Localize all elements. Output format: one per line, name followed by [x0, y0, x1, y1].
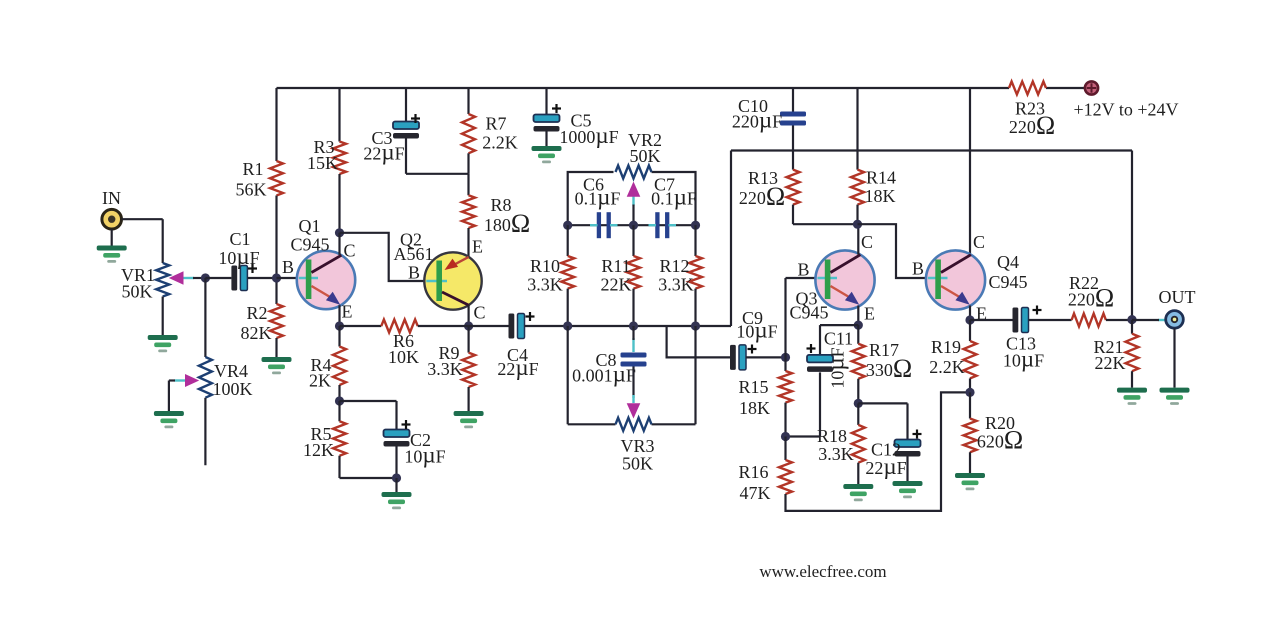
- wire R5 to bottom: [340, 456, 397, 478]
- svg-text:IN: IN: [102, 188, 121, 208]
- svg-text:22µF: 22µF: [497, 355, 538, 380]
- wire node to R20: [969, 392, 971, 418]
- node Q3 emitter: [854, 321, 863, 330]
- wire VR1 wiper to node: [193, 277, 205, 279]
- wire Q2 collector to C4: [469, 325, 509, 327]
- value 18K R14: [865, 186, 896, 206]
- plus C13: [1033, 306, 1042, 315]
- label R9: [438, 343, 459, 363]
- node R1 R2 base: [272, 273, 281, 282]
- node R19 R20: [965, 388, 974, 397]
- value 3.3K R12: [658, 275, 694, 295]
- capacitor C11: [807, 355, 833, 372]
- wire C9 to node: [746, 356, 786, 358]
- label R1: [242, 159, 263, 179]
- svg-text:R14: R14: [866, 168, 896, 188]
- label C9: [742, 308, 763, 328]
- wire IN to VR1: [122, 219, 163, 263]
- wire R12 to bottom row: [694, 289, 696, 326]
- capacitor C2: [384, 430, 410, 447]
- wire VR4 bottom stub: [204, 398, 206, 466]
- svg-text:10µF: 10µF: [218, 244, 259, 269]
- wire R14 to node: [856, 205, 858, 225]
- wire node up to Q3 base: [786, 278, 817, 357]
- svg-text:3.3K: 3.3K: [427, 359, 463, 379]
- wire VR3 left lead: [568, 423, 616, 425]
- svg-text:C: C: [973, 232, 985, 252]
- label R18: [817, 426, 847, 446]
- svg-text:R10: R10: [530, 256, 560, 276]
- wire VR3 right lead: [652, 423, 696, 425]
- wire Q1 emitter to R6: [340, 325, 382, 327]
- potentiometer VR1: [156, 263, 169, 297]
- wire Q2 collector: [468, 305, 470, 326]
- label C945 Q4: [988, 272, 1027, 292]
- label VR1: [121, 265, 155, 285]
- capacitor C12: [895, 440, 921, 457]
- transistor Q4: [926, 250, 985, 309]
- value 10uF C11 vertical: [824, 347, 849, 388]
- label C8: [595, 350, 616, 370]
- node tone bottom right: [691, 321, 700, 330]
- resistor R21: [1126, 334, 1139, 372]
- value 50K VR1: [122, 282, 153, 302]
- capacitor C13: [1013, 308, 1029, 333]
- wire VR2 right lead: [652, 172, 696, 225]
- svg-text:0.1µF: 0.1µF: [651, 185, 697, 210]
- wiper VR3: [627, 403, 641, 418]
- potentiometer VR4: [199, 357, 212, 398]
- value 220uF C10: [732, 108, 782, 133]
- wire R17 to node: [857, 379, 859, 404]
- svg-text:50K: 50K: [622, 454, 653, 474]
- wire Q1 emitter: [338, 305, 340, 326]
- label C12: [871, 440, 901, 460]
- wire VR1 to ground: [162, 297, 164, 336]
- value 330ohm R17: [866, 354, 912, 383]
- label C Q3: [861, 232, 873, 252]
- wire R1 to base node: [275, 196, 277, 279]
- label Q1: [299, 216, 321, 236]
- svg-text:0.001µF: 0.001µF: [572, 362, 636, 387]
- wire R6 to Q2 collector: [418, 325, 469, 327]
- stub OUT: [1158, 319, 1165, 321]
- svg-text:47K: 47K: [740, 483, 771, 503]
- label C Q2: [473, 303, 485, 323]
- wire right to VR3: [694, 326, 696, 424]
- svg-text:10K: 10K: [388, 347, 419, 367]
- transistor Q1: [297, 251, 355, 309]
- svg-text:18K: 18K: [865, 186, 896, 206]
- resistor R8: [462, 195, 475, 228]
- wire rail to C10: [792, 88, 794, 112]
- wire R15 to node: [784, 403, 786, 437]
- value 3.3K R9: [427, 359, 463, 379]
- wire tone row to C9 jog: [667, 326, 730, 357]
- capacitor C4: [509, 314, 525, 339]
- label R4: [310, 355, 331, 375]
- wire node to R5: [338, 401, 340, 421]
- node tone bottom left: [563, 321, 572, 330]
- connector OUT: [1166, 311, 1184, 329]
- wire feedback from tone node up: [730, 151, 732, 327]
- capacitor C1: [231, 266, 247, 291]
- svg-text:C11: C11: [824, 329, 853, 349]
- label R10: [530, 256, 560, 276]
- wire rail to C3: [405, 88, 407, 122]
- wire VR2 left lead: [568, 172, 614, 225]
- wire node to R11: [632, 225, 634, 256]
- resistor R12: [689, 256, 702, 289]
- wire left to VR3: [567, 326, 569, 424]
- wire VR4 wiper to ground: [169, 381, 175, 412]
- svg-text:B: B: [408, 263, 420, 283]
- label C3: [371, 128, 392, 148]
- wire R11 to bottom row: [632, 289, 634, 326]
- resistor R10: [561, 256, 574, 289]
- svg-text:100K: 100K: [213, 379, 253, 399]
- svg-text:22µF: 22µF: [363, 140, 404, 165]
- svg-text:R8: R8: [490, 195, 511, 215]
- label R7: [485, 114, 506, 134]
- resistor R22: [1072, 314, 1106, 327]
- ground C5: [532, 146, 562, 163]
- transistor Q3: [815, 250, 874, 309]
- label A561 Q2: [394, 244, 434, 264]
- wire node to R16: [784, 437, 786, 461]
- svg-text:0.1µF: 0.1µF: [575, 185, 621, 210]
- resistor R18: [852, 425, 865, 463]
- capacitor C7: [655, 212, 669, 238]
- node Q4 emitter: [965, 315, 974, 324]
- label R13: [748, 168, 778, 188]
- value 15K R3: [307, 153, 338, 173]
- value 0.1uF C7: [651, 185, 697, 210]
- capacitor C3: [393, 122, 419, 139]
- svg-text:E: E: [342, 302, 353, 322]
- value 220&#937; R23: [1009, 111, 1055, 140]
- svg-text:OUT: OUT: [1159, 287, 1196, 307]
- plus C11: [807, 344, 816, 353]
- label VR3: [620, 436, 654, 456]
- wire R4 to node: [338, 385, 340, 401]
- potentiometer VR3: [616, 418, 652, 431]
- stub C8 top: [632, 338, 634, 352]
- wire rail to R7: [467, 88, 469, 114]
- wire Q1 collector to Q2 base jog: [340, 233, 426, 281]
- resistor R5: [333, 421, 346, 455]
- value 3.3K R10: [527, 275, 563, 295]
- label R8: [490, 195, 511, 215]
- wire node to R10: [567, 225, 569, 256]
- wire R9 to ground: [468, 387, 470, 411]
- value 100K VR4: [213, 379, 253, 399]
- label R15: [738, 377, 768, 397]
- ground C2: [382, 492, 412, 509]
- wire Q1 emitter to R4: [338, 326, 340, 347]
- node input: [201, 273, 210, 282]
- wire C13 to R22: [1029, 319, 1072, 321]
- value 10uF C1: [218, 244, 259, 269]
- wire C8 to wiper: [632, 367, 634, 399]
- value 2K R4: [309, 371, 331, 391]
- wiper VR2: [627, 182, 641, 206]
- svg-text:12K: 12K: [303, 440, 334, 460]
- stub C7 left: [649, 224, 657, 226]
- ground VR4 wiper: [154, 411, 184, 428]
- label R3: [313, 137, 334, 157]
- svg-text:www.elecfree.com: www.elecfree.com: [759, 562, 886, 581]
- svg-text:C945: C945: [988, 272, 1027, 292]
- wire node to R12: [694, 225, 696, 256]
- resistor R9: [462, 353, 475, 387]
- svg-text:+12V to +24V: +12V to +24V: [1074, 100, 1179, 120]
- label C4: [507, 345, 528, 365]
- wire R22 to output node: [1106, 319, 1132, 321]
- svg-text:R19: R19: [931, 337, 961, 357]
- svg-text:10µF: 10µF: [404, 443, 445, 468]
- svg-text:50K: 50K: [122, 282, 153, 302]
- label C Q1: [343, 241, 355, 261]
- value 22uF C3: [363, 140, 404, 165]
- label OUT: [1159, 287, 1196, 307]
- resistor R7: [462, 114, 475, 153]
- label R20: [985, 413, 1015, 433]
- value 10uF C2: [404, 443, 445, 468]
- wire node to R15: [784, 357, 786, 371]
- value 56K R1: [236, 180, 267, 200]
- label Q4: [997, 252, 1019, 272]
- plus C12: [913, 430, 922, 439]
- wire base node to Q1: [277, 277, 298, 279]
- label R5: [310, 424, 331, 444]
- label R19: [931, 337, 961, 357]
- wire Q4 emitter: [969, 306, 971, 321]
- node output: [1127, 315, 1136, 324]
- wire R7 to node: [467, 153, 469, 174]
- ground C12: [893, 481, 923, 498]
- ground R2: [262, 357, 292, 374]
- wire rail to R14: [856, 88, 858, 170]
- label R21: [1093, 337, 1123, 357]
- connector IN: [102, 209, 122, 229]
- value 10uF C13: [1003, 347, 1044, 372]
- resistor R2: [270, 304, 283, 338]
- svg-text:B: B: [912, 259, 924, 279]
- svg-text:E: E: [472, 237, 483, 257]
- label C Q4: [973, 232, 985, 252]
- capacitor C6: [597, 212, 611, 238]
- label B Q2: [408, 263, 420, 283]
- node tone bottom mid: [629, 321, 638, 330]
- wire Q3 collector: [857, 224, 859, 254]
- svg-text:15K: 15K: [307, 153, 338, 173]
- ground VR1: [148, 335, 178, 352]
- wire rail to R3: [338, 88, 340, 142]
- capacitor C8: [621, 353, 647, 367]
- svg-text:10µF: 10µF: [1003, 347, 1044, 372]
- svg-text:R2: R2: [246, 303, 267, 323]
- wire node to C8: [632, 326, 634, 340]
- plus C9: [748, 345, 757, 354]
- wire output node to R21: [1131, 320, 1133, 334]
- svg-text:R12: R12: [659, 256, 689, 276]
- svg-text:50K: 50K: [630, 146, 661, 166]
- svg-text:18K: 18K: [739, 398, 770, 418]
- svg-text:R11: R11: [601, 256, 630, 276]
- wire node to R18: [857, 403, 859, 425]
- value 220ohm R13: [739, 182, 785, 211]
- ground OUT: [1160, 388, 1190, 405]
- node C2 ground: [392, 473, 401, 482]
- svg-text:3.3K: 3.3K: [527, 275, 563, 295]
- wire node to C12: [858, 403, 907, 439]
- wire node to R8: [467, 174, 469, 196]
- node R17 R18: [854, 399, 863, 408]
- stub C6 left: [590, 224, 598, 226]
- wire C12 to ground: [906, 457, 908, 482]
- ground R9: [454, 411, 484, 428]
- resistor R3: [333, 142, 346, 175]
- value 22uF C12: [865, 454, 906, 479]
- ground R20: [955, 473, 985, 490]
- svg-text:22K: 22K: [1095, 353, 1126, 373]
- svg-text:VR4: VR4: [214, 361, 248, 381]
- wire base node to R2: [275, 278, 277, 304]
- wire feedback horizontal: [731, 149, 1132, 151]
- svg-text:22µF: 22µF: [865, 454, 906, 479]
- svg-text:B: B: [797, 260, 809, 280]
- potentiometer VR2: [616, 166, 652, 179]
- label C1: [229, 229, 250, 249]
- value 1000uF C5: [559, 123, 618, 148]
- svg-text:3.3K: 3.3K: [818, 444, 854, 464]
- node Q2 collector: [464, 321, 473, 330]
- node C9 R15 base: [781, 353, 790, 362]
- label VR2: [628, 130, 662, 150]
- label IN: [102, 188, 121, 208]
- wire tone top row: [568, 224, 696, 226]
- resistor R15: [779, 371, 792, 403]
- value 0.1uF C6: [575, 185, 621, 210]
- value 50K VR3: [622, 454, 653, 474]
- label R16: [738, 462, 768, 482]
- svg-text:82K: 82K: [241, 323, 272, 343]
- wire rail left drop to R1: [275, 88, 277, 161]
- svg-text:2K: 2K: [309, 371, 331, 391]
- wire R8 to Q2 emitter: [467, 228, 469, 258]
- wire feedback down to output: [1131, 151, 1133, 320]
- value 10uF C9: [736, 318, 777, 343]
- svg-text:Q1: Q1: [299, 216, 321, 236]
- wire R2 to ground: [275, 338, 277, 357]
- wire R19 to node: [969, 378, 971, 392]
- wire C11 bottom: [786, 372, 821, 436]
- wire IN to ground: [111, 229, 113, 246]
- label Q2: [400, 230, 422, 250]
- svg-text:C: C: [861, 232, 873, 252]
- resistor R1: [270, 161, 283, 196]
- wire C3 bottom: [406, 139, 469, 174]
- wire C4 to tone bottom row: [525, 325, 732, 327]
- svg-text:3.3K: 3.3K: [658, 275, 694, 295]
- stub C6 right: [610, 224, 618, 226]
- resistor R19: [964, 341, 977, 378]
- label B Q3: [797, 260, 809, 280]
- ground IN: [97, 246, 127, 263]
- value 12K R5: [303, 440, 334, 460]
- svg-text:C: C: [343, 241, 355, 261]
- svg-text:R15: R15: [738, 377, 768, 397]
- value 0.001uF C8: [572, 362, 636, 387]
- svg-text:Q4: Q4: [997, 252, 1019, 272]
- svg-text:2.2K: 2.2K: [482, 133, 518, 153]
- plus C4: [526, 312, 535, 321]
- label R23: [1015, 99, 1045, 119]
- wire rail to C5: [545, 88, 547, 115]
- wire Q4 emitter to C13: [970, 319, 1013, 321]
- value 2.2K R19: [929, 357, 965, 377]
- wire rail to Q4 collector: [969, 88, 971, 254]
- resistor R17: [852, 344, 865, 379]
- label E Q3: [864, 304, 875, 324]
- label C945 Q3: [789, 303, 828, 323]
- value 82K R2: [241, 323, 272, 343]
- label R14: [866, 168, 896, 188]
- svg-text:R18: R18: [817, 426, 847, 446]
- capacitor C9: [730, 345, 746, 370]
- wire Q3 emitter to C11: [820, 325, 858, 355]
- resistor R4: [333, 347, 346, 386]
- value 22K R21: [1095, 353, 1126, 373]
- resistor R20: [964, 419, 977, 453]
- wire C1 to base node: [247, 277, 276, 279]
- resistor R11: [627, 256, 640, 289]
- svg-text:E: E: [864, 304, 875, 324]
- label C2: [410, 430, 431, 450]
- wire VR2 wiper down: [632, 205, 634, 226]
- wire R16 to R19 node: [786, 392, 971, 511]
- stub VR3 wiper: [632, 395, 634, 403]
- svg-text:C945: C945: [789, 303, 828, 323]
- label VR4: [214, 361, 248, 381]
- ground R21: [1117, 388, 1147, 405]
- label Q3: [796, 289, 818, 309]
- wire R10 to bottom row: [567, 289, 569, 326]
- node R4 R5: [335, 396, 344, 405]
- label R12: [659, 256, 689, 276]
- node Q1 emitter: [335, 321, 344, 330]
- wire Q2 collector to R9: [468, 326, 470, 353]
- svg-text:A561: A561: [394, 244, 434, 264]
- svg-text:56K: 56K: [236, 180, 267, 200]
- label C13: [1006, 334, 1036, 354]
- label C11: [824, 329, 853, 349]
- wire node to ground: [395, 478, 397, 492]
- value 2.2K R7: [482, 133, 518, 153]
- capacitor C10: [780, 112, 806, 126]
- wire node to OUT: [1132, 319, 1159, 321]
- label E Q2: [472, 237, 483, 257]
- wire top supply rail: [277, 87, 1010, 89]
- value 18K R15: [739, 398, 770, 418]
- label R6: [393, 331, 414, 351]
- label C7: [654, 175, 675, 195]
- wire R13 to Q3 collector node: [793, 205, 858, 225]
- power terminal +12V: [1085, 81, 1098, 94]
- value 50K VR2: [630, 146, 661, 166]
- label C6: [583, 175, 604, 195]
